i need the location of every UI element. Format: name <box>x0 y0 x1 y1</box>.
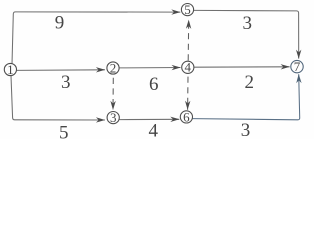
svg-text:6: 6 <box>149 74 159 95</box>
svg-text:3: 3 <box>110 110 117 125</box>
svg-text:4: 4 <box>185 60 192 75</box>
svg-text:7: 7 <box>294 59 301 74</box>
svg-text:6: 6 <box>183 109 190 124</box>
svg-text:5: 5 <box>59 122 69 139</box>
svg-text:3: 3 <box>243 13 253 34</box>
svg-text:3: 3 <box>61 72 71 93</box>
svg-text:4: 4 <box>148 121 158 139</box>
svg-text:5: 5 <box>184 2 191 17</box>
svg-text:2: 2 <box>244 72 254 93</box>
svg-text:9: 9 <box>55 13 65 34</box>
svg-text:2: 2 <box>110 60 117 75</box>
svg-text:1: 1 <box>7 62 14 77</box>
svg-text:3: 3 <box>241 120 251 139</box>
